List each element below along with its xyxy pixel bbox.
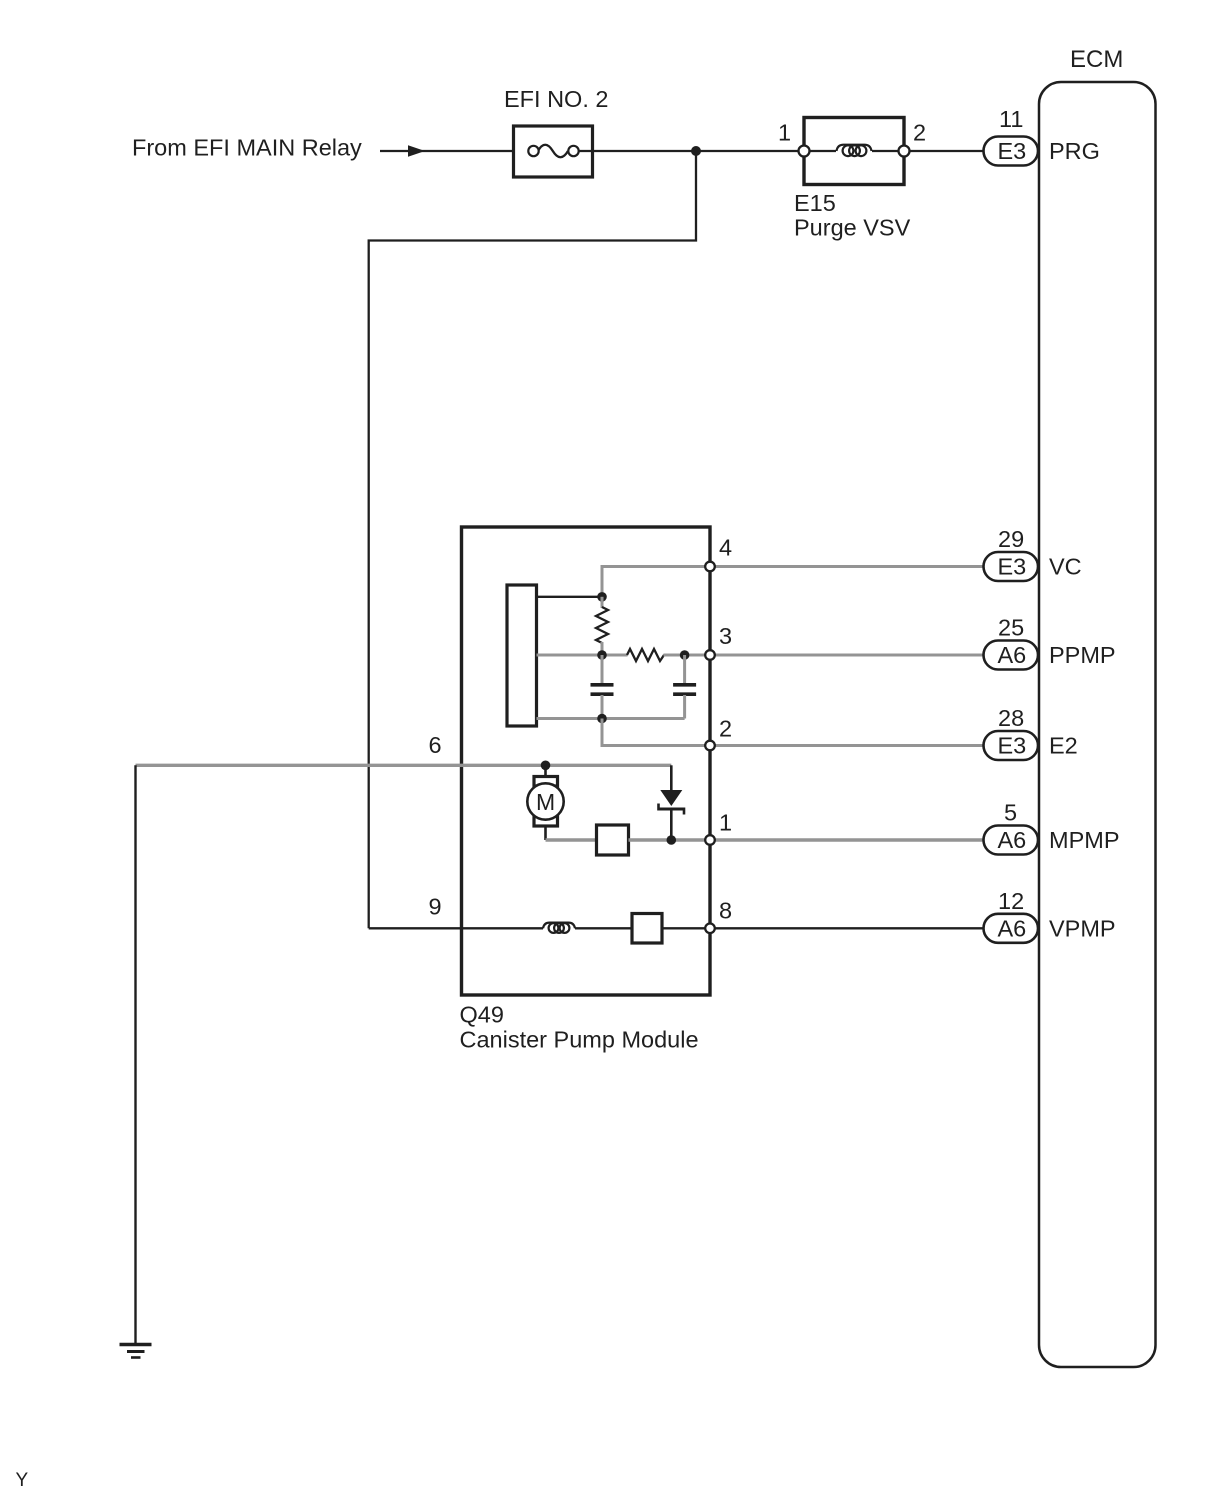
- svg-text:29: 29: [998, 526, 1024, 552]
- wire: pin6 row from ground rail into module: [136, 764, 672, 767]
- svg-text:A6: A6: [998, 642, 1027, 668]
- wire: sensor top lead: [537, 596, 603, 598]
- svg-text:9: 9: [429, 894, 442, 920]
- svg-text:E2: E2: [1049, 733, 1078, 759]
- restrictor square 2: [632, 914, 662, 944]
- svg-text:VC: VC: [1049, 554, 1082, 580]
- svg-text:PPMP: PPMP: [1049, 642, 1116, 668]
- svg-text:Canister Pump Module: Canister Pump Module: [460, 1027, 699, 1053]
- wire: square to MPMP pill: [629, 838, 985, 841]
- svg-text:6: 6: [429, 732, 442, 758]
- svg-text:MPMP: MPMP: [1049, 827, 1120, 853]
- wire: resistor to mid rail: [601, 642, 604, 655]
- svg-text:Y: Y: [16, 1470, 29, 1491]
- resistor R2 (horizontal): [627, 649, 664, 661]
- svg-text:28: 28: [998, 705, 1024, 731]
- node: junction at C2 top: [680, 650, 690, 660]
- node: diode junction on MPMP row: [667, 835, 677, 845]
- svg-text:25: 25: [998, 615, 1024, 641]
- svg-text:PRG: PRG: [1049, 138, 1100, 164]
- svg-text:2: 2: [719, 716, 732, 742]
- fuse EFI NO. 2: [514, 126, 593, 177]
- svg-text:12: 12: [998, 888, 1024, 914]
- wire: resistor R2 to pin3 pill: [664, 654, 985, 657]
- connector pill E3 pin 29 (VC): [984, 526, 1082, 581]
- svg-text:VPMP: VPMP: [1049, 915, 1116, 941]
- wire: bottom rail to pin2 row (E2): [602, 719, 984, 746]
- canister pump module Q49 box: [462, 527, 711, 995]
- sensor element (pressure sensor): [507, 585, 537, 726]
- wire: fuse to E15: [578, 150, 799, 152]
- svg-text:E3: E3: [998, 733, 1027, 759]
- ground symbol: [120, 1345, 152, 1358]
- svg-text:E3: E3: [998, 554, 1027, 580]
- node: junction below fuse: [691, 146, 701, 156]
- arrowhead on feed wire: [408, 145, 425, 157]
- svg-text:A6: A6: [998, 915, 1027, 941]
- capacitor C2: [673, 655, 696, 719]
- module pin circle 2: [705, 741, 715, 751]
- wire: E15 to PRG pill: [910, 150, 985, 152]
- connector pill A6 pin 5 (MPMP): [984, 800, 1120, 855]
- ECM box: [1039, 82, 1156, 1367]
- svg-text:ECM: ECM: [1070, 46, 1123, 73]
- wire: stub into resistor: [601, 597, 604, 608]
- zener diode D1: [659, 765, 685, 840]
- resistor R1 (vertical): [596, 607, 608, 643]
- svg-text:8: 8: [719, 898, 732, 924]
- module pin circle 8: [705, 924, 715, 934]
- wire: junction down-left-down to VPMP branch: [369, 151, 696, 928]
- svg-text:Purge VSV: Purge VSV: [794, 215, 911, 241]
- wire: sensor mid lead / pin3 row left part: [537, 654, 628, 657]
- svg-text:E15: E15: [794, 190, 836, 216]
- capacitor C1: [591, 655, 614, 719]
- svg-text:A6: A6: [998, 827, 1027, 853]
- wire: square 2 to VPMP pill: [662, 927, 984, 929]
- module pin circle 4: [705, 562, 715, 572]
- node: bottom-rail junction: [597, 714, 607, 724]
- motor M: [527, 765, 563, 840]
- svg-text:M: M: [536, 789, 555, 815]
- coil L1 (pin 9 line): [543, 923, 575, 929]
- node: junction above motor: [541, 761, 551, 771]
- svg-text:EFI NO. 2: EFI NO. 2: [504, 86, 608, 112]
- module pin circle 1: [705, 835, 715, 845]
- wire: sensor bottom lead: [537, 717, 685, 720]
- svg-text:1: 1: [778, 120, 791, 146]
- coil of E15: [837, 145, 872, 151]
- restrictor square 1: [597, 825, 629, 855]
- svg-text:5: 5: [1004, 800, 1017, 826]
- connector pill A6 pin 12 (VPMP): [984, 888, 1116, 943]
- module pin circle 3: [705, 650, 715, 660]
- svg-text:4: 4: [719, 535, 732, 561]
- svg-text:Q49: Q49: [460, 1002, 504, 1028]
- wire: pin4 row (VC): [602, 567, 984, 593]
- wire: coil to restrictor square 2: [575, 927, 632, 929]
- wire: ground drop: [134, 765, 136, 1344]
- connector pill E3 pin 11 (PRG): [984, 106, 1100, 166]
- svg-text:E3: E3: [998, 138, 1027, 164]
- svg-text:2: 2: [913, 120, 926, 146]
- node: mid-rail junction at R1: [597, 650, 607, 660]
- wire: feed from EFI MAIN relay: [380, 150, 529, 152]
- svg-text:1: 1: [719, 810, 732, 836]
- wire: VPMP branch into module: [369, 927, 543, 929]
- svg-text:11: 11: [999, 106, 1023, 132]
- svg-text:From EFI MAIN Relay: From EFI MAIN Relay: [132, 135, 362, 161]
- connector pill E3 pin 28 (E2): [984, 705, 1078, 760]
- wire: motor to restrictor square (MPMP row): [546, 838, 597, 841]
- svg-text:3: 3: [719, 623, 732, 649]
- solenoid E15 Purge VSV: [799, 118, 910, 185]
- connector pill A6 pin 25 (PPMP): [984, 615, 1116, 670]
- node: resistor top junction: [597, 592, 607, 602]
